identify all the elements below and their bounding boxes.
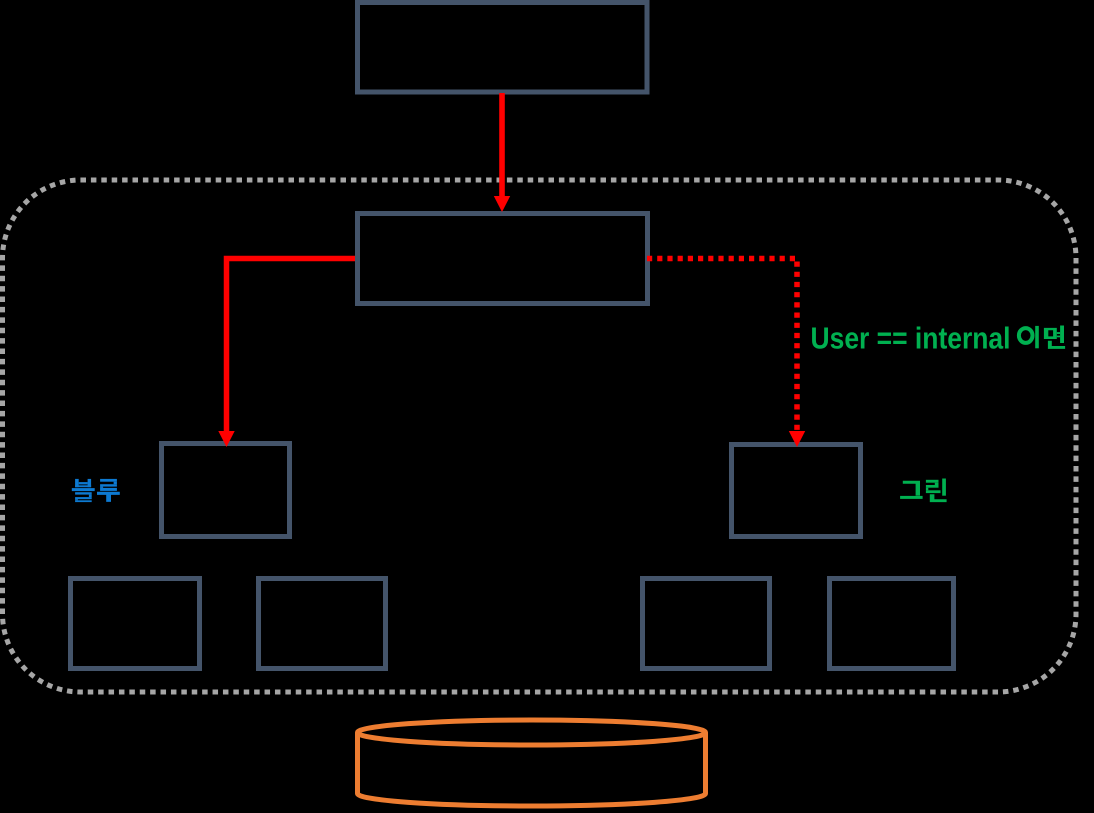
box bottom-left B [259, 579, 386, 669]
arrowhead blue [218, 431, 234, 447]
면 : ㄴ [1048, 341, 1065, 349]
면 : ㅁ [1044, 328, 1057, 339]
arrow dotted elbow to green box [647, 259, 797, 431]
이 : ㅣ [1035, 326, 1039, 348]
box middle (router) [358, 214, 648, 304]
arrow solid top-to-middle [494, 93, 510, 212]
label 이면 (hangul, drawn) [1019, 326, 1065, 349]
arrowhead green [789, 431, 805, 447]
린 : ㄴ [930, 494, 947, 502]
그 : ㄱ [903, 481, 920, 496]
린 : ㄹ [926, 480, 939, 483]
블 : ㄹ [75, 492, 92, 494]
svg-text:User == internal: User == internal [811, 321, 1011, 356]
cylinder DB top ellipse [358, 720, 706, 745]
box bottom-left A [71, 579, 200, 669]
box blue target [162, 444, 290, 537]
루 : ㅜ [97, 492, 120, 502]
label 블루 (blue, drawn) [72, 479, 120, 502]
box bottom-right C [643, 579, 770, 669]
arrow solid elbow to blue box [227, 259, 356, 433]
box green target [732, 445, 861, 537]
블 : ㅂ [75, 479, 79, 487]
면 : ㅕ ticks [1057, 332, 1060, 334]
블 : ㅡ [72, 488, 95, 491]
린 : ㅣ [942, 479, 946, 496]
루 : ㄹ [100, 479, 117, 482]
이 : ㅇ ring [1019, 328, 1033, 343]
box top (start) [358, 3, 648, 93]
cylinder DB body [358, 733, 706, 806]
label 그린 (green, drawn) [900, 479, 947, 503]
box bottom-right D [830, 579, 954, 669]
그 : ㅡ [900, 496, 923, 499]
면 : ㅕ vertical [1060, 326, 1064, 344]
dotted boundary (rounded rect, gray dashed) [3, 180, 1077, 692]
